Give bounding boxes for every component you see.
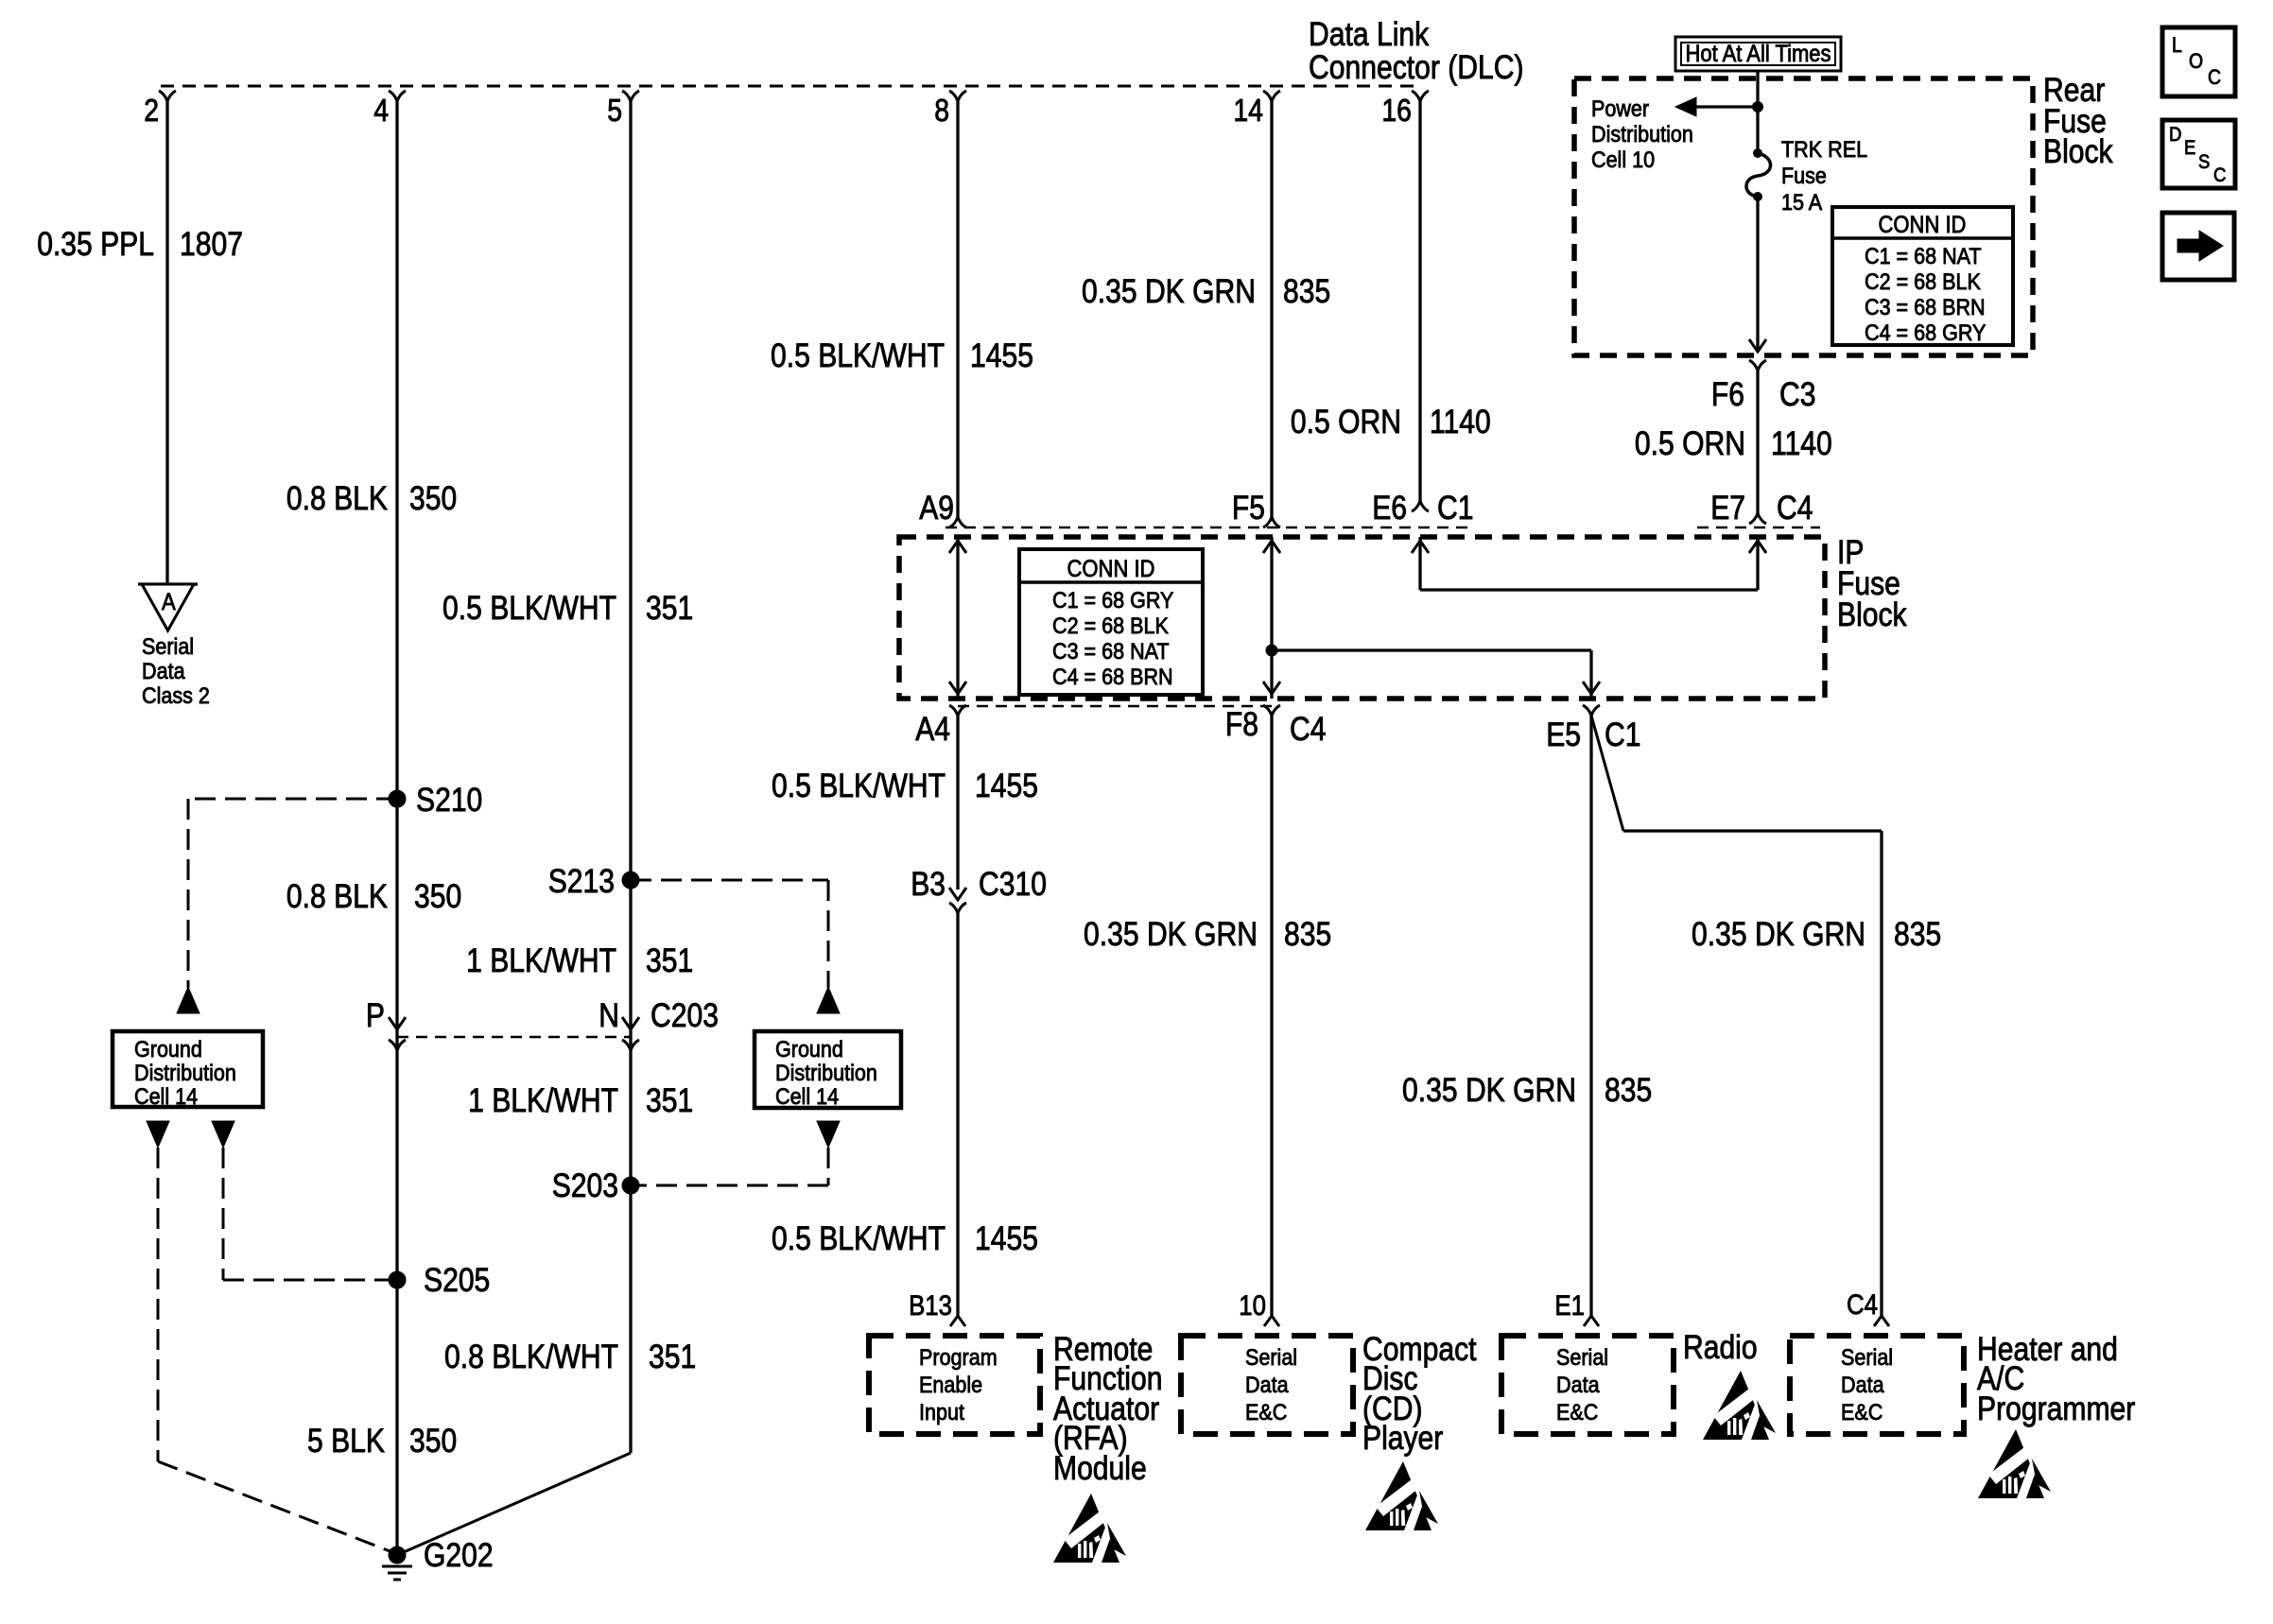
DLC pin 5 connector tick bbox=[622, 91, 639, 101]
svg-text:15 A: 15 A bbox=[1781, 190, 1823, 216]
arrow into right ground box bbox=[817, 987, 840, 1013]
svg-text:A4: A4 bbox=[915, 711, 950, 748]
svg-text:TRK REL: TRK REL bbox=[1781, 137, 1867, 163]
svg-text:Fuse: Fuse bbox=[1781, 164, 1827, 189]
label 0.35 DK GRN 835 heater bbox=[1692, 916, 1941, 953]
svg-text:Serial: Serial bbox=[1556, 1345, 1608, 1371]
svg-text:C3: C3 bbox=[1779, 376, 1816, 413]
svg-text:351: 351 bbox=[649, 1339, 696, 1375]
DLC top connector dashed line bbox=[161, 85, 1420, 88]
dashed wire left ground box to S205 bbox=[223, 1148, 390, 1280]
ESD symbol CD player bbox=[1365, 1461, 1438, 1530]
svg-text:C3 = 68 NAT: C3 = 68 NAT bbox=[1052, 639, 1170, 665]
wire pin5 down to bend bbox=[629, 101, 632, 1453]
svg-text:S: S bbox=[2198, 151, 2210, 173]
junction S205 bbox=[389, 1271, 406, 1288]
svg-text:Program: Program bbox=[919, 1345, 998, 1371]
tick into serial data E&C box heater bbox=[1874, 1316, 1889, 1326]
wire E5 down to E1 radio bbox=[1589, 716, 1592, 1316]
svg-text:C4 = 68 GRY: C4 = 68 GRY bbox=[1865, 320, 1986, 346]
label 0.5 BLK/WHT 1455 bbox=[771, 337, 1033, 374]
svg-text:E7: E7 bbox=[1710, 490, 1745, 527]
svg-text:0.5 ORN: 0.5 ORN bbox=[1635, 425, 1745, 462]
dashed wire S213 to right ground box bbox=[631, 880, 828, 988]
wire pin8 down to A9 bbox=[956, 101, 959, 517]
Compact Disc (CD) Player label bbox=[1362, 1331, 1477, 1457]
wire fuse to bottom of rear fuse block bbox=[1756, 197, 1759, 352]
svg-text:C4 = 68 BRN: C4 = 68 BRN bbox=[1052, 665, 1173, 690]
svg-text:1140: 1140 bbox=[1771, 425, 1832, 462]
svg-text:Connector (DLC): Connector (DLC) bbox=[1309, 49, 1524, 86]
IP fuse block dashed box bbox=[899, 537, 1825, 699]
svg-text:Serial: Serial bbox=[1841, 1345, 1893, 1371]
svg-text:4: 4 bbox=[373, 93, 389, 128]
DLC pin 2 connector tick bbox=[159, 91, 176, 101]
Rear Fuse Block label bbox=[2043, 72, 2113, 170]
label 0.35 PPL 1807 bbox=[37, 226, 243, 263]
svg-text:F8: F8 bbox=[1225, 706, 1258, 743]
label 1 BLK/WHT 351 bbox=[466, 942, 693, 979]
connector E7 C4 tick bbox=[1749, 513, 1766, 524]
label 0.35 DK GRN 835 radio bbox=[1402, 1072, 1652, 1109]
wire F8 down to pin 10 bbox=[1270, 716, 1273, 1316]
dashed wire right ground box to S203 bbox=[638, 1148, 828, 1185]
connector C203 pin P tick bbox=[389, 1040, 406, 1050]
svg-text:CONN ID: CONN ID bbox=[1879, 212, 1967, 238]
ESD symbol heater bbox=[1978, 1429, 2051, 1498]
connector F8 C4 tick bbox=[1263, 705, 1280, 716]
svg-text:C: C bbox=[2208, 65, 2221, 89]
svg-text:Programmer: Programmer bbox=[1977, 1391, 2136, 1427]
junction at power distribution tap bbox=[1753, 102, 1763, 112]
svg-text:Module: Module bbox=[1053, 1450, 1147, 1487]
label 0.5 ORN 1140 bbox=[1291, 404, 1491, 441]
svg-text:F6: F6 bbox=[1711, 376, 1744, 413]
IP Fuse Block label bbox=[1837, 534, 1907, 633]
wire F5-F8 through IP block bbox=[1270, 537, 1273, 699]
svg-text:351: 351 bbox=[646, 590, 693, 627]
connector B3 C310 bbox=[949, 888, 966, 900]
wire F6 to E7 0.5 ORN bbox=[1756, 371, 1759, 513]
svg-text:Power: Power bbox=[1591, 96, 1649, 122]
svg-text:A9: A9 bbox=[919, 490, 954, 527]
svg-text:0.5 BLK/WHT: 0.5 BLK/WHT bbox=[771, 337, 945, 374]
dashed wire S210 to ground distribution cell 14 bbox=[188, 799, 397, 988]
serial data class 2 triangle ref A bbox=[138, 584, 198, 631]
svg-text:1455: 1455 bbox=[975, 1220, 1038, 1257]
svg-text:351: 351 bbox=[646, 1082, 693, 1119]
tick into serial data E&C box CD bbox=[1264, 1316, 1279, 1326]
arrows below left ground box bbox=[147, 1121, 169, 1148]
svg-text:351: 351 bbox=[646, 942, 693, 979]
svg-text:Block: Block bbox=[2043, 133, 2113, 170]
program enable input box (RFA) bbox=[869, 1336, 1040, 1434]
svg-text:C310: C310 bbox=[979, 866, 1047, 903]
svg-text:2: 2 bbox=[144, 93, 159, 128]
svg-text:835: 835 bbox=[1283, 273, 1330, 310]
svg-text:Cell 10: Cell 10 bbox=[1591, 147, 1655, 173]
svg-text:Serial: Serial bbox=[142, 634, 194, 660]
connector A4 tick bbox=[949, 705, 966, 716]
svg-text:8: 8 bbox=[934, 93, 949, 128]
svg-text:S210: S210 bbox=[416, 782, 482, 819]
wire E5 branch to heater bbox=[1591, 716, 1882, 1316]
tick into program enable input box bbox=[950, 1316, 965, 1326]
svg-text:0.35 PPL: 0.35 PPL bbox=[37, 226, 154, 263]
label 0.8 BLK 350 second bbox=[286, 878, 461, 915]
C4 label heater bbox=[1847, 1289, 1878, 1321]
DLC pin 8 label bbox=[934, 93, 949, 128]
pin 10 label bbox=[1239, 1290, 1266, 1322]
svg-text:C: C bbox=[2213, 164, 2226, 186]
svg-text:Cell 14: Cell 14 bbox=[134, 1084, 198, 1110]
svg-text:Data: Data bbox=[142, 659, 185, 684]
svg-text:Cell 14: Cell 14 bbox=[775, 1084, 839, 1110]
label 0.5 ORN 1140 right bbox=[1635, 425, 1832, 462]
svg-text:E5: E5 bbox=[1546, 717, 1581, 753]
svg-text:0.8 BLK: 0.8 BLK bbox=[286, 878, 388, 915]
label 0.8 BLK/WHT 351 bbox=[444, 1339, 696, 1375]
connector C203 pin P arrow bbox=[389, 1017, 406, 1029]
svg-text:L: L bbox=[2172, 33, 2182, 57]
left ground distribution box bbox=[113, 1031, 263, 1110]
svg-text:G202: G202 bbox=[424, 1537, 494, 1574]
svg-text:A: A bbox=[162, 589, 176, 615]
right ground distribution box bbox=[755, 1031, 901, 1110]
svg-text:0.5 BLK/WHT: 0.5 BLK/WHT bbox=[772, 768, 946, 804]
connector F6 C3 tick bbox=[1749, 360, 1766, 371]
Hot At All Times box bbox=[1675, 37, 1841, 71]
svg-text:E&C: E&C bbox=[1556, 1400, 1598, 1425]
svg-text:0.5 BLK/WHT: 0.5 BLK/WHT bbox=[442, 590, 616, 627]
svg-text:P: P bbox=[366, 997, 385, 1034]
svg-text:C1: C1 bbox=[1605, 717, 1641, 753]
connector E6 C1 tick bbox=[1412, 501, 1429, 511]
svg-text:E: E bbox=[2184, 137, 2195, 159]
wire junction to E5 bbox=[1272, 648, 1591, 651]
DLC pin 5 label bbox=[607, 93, 622, 128]
svg-text:F5: F5 bbox=[1232, 490, 1265, 527]
svg-text:Ground: Ground bbox=[134, 1037, 202, 1063]
DLC pin 2 label bbox=[144, 93, 159, 128]
ESD symbol radio bbox=[1703, 1371, 1776, 1440]
arrow below right ground box bbox=[817, 1121, 840, 1148]
TRK REL Fuse 15 A text bbox=[1781, 137, 1867, 216]
svg-text:C4: C4 bbox=[1290, 711, 1327, 748]
svg-text:Hot At All Times: Hot At All Times bbox=[1685, 41, 1831, 67]
svg-text:Data Link: Data Link bbox=[1309, 16, 1430, 53]
fuse TRK REL 15A bbox=[1746, 149, 1771, 201]
svg-text:835: 835 bbox=[1605, 1072, 1652, 1109]
rear fuse block dashed box bbox=[1574, 78, 2033, 355]
wire pin4 to G202 bbox=[395, 101, 398, 1555]
serial data E&C box radio bbox=[1501, 1336, 1674, 1434]
svg-text:Enable: Enable bbox=[919, 1373, 982, 1398]
DLC pin 16 label bbox=[1381, 93, 1412, 128]
svg-text:0.35 DK GRN: 0.35 DK GRN bbox=[1084, 916, 1258, 953]
svg-text:5: 5 bbox=[607, 93, 622, 128]
svg-text:B13: B13 bbox=[909, 1290, 952, 1322]
svg-text:C4: C4 bbox=[1777, 490, 1813, 527]
label 0.35 DK GRN 835 bbox=[1082, 273, 1330, 310]
connector C203 pin N tick bbox=[622, 1040, 639, 1050]
CONN ID table IP fuse block bbox=[1019, 549, 1203, 695]
LOC legend box bbox=[2162, 27, 2235, 96]
svg-text:0.35 DK GRN: 0.35 DK GRN bbox=[1692, 916, 1865, 953]
DLC pin 14 label bbox=[1233, 93, 1263, 128]
svg-text:Data: Data bbox=[1556, 1373, 1600, 1398]
svg-text:E1: E1 bbox=[1554, 1290, 1585, 1322]
tick into serial data E&C box radio bbox=[1584, 1316, 1599, 1326]
connector E5 C1 tick bbox=[1583, 705, 1600, 716]
svg-text:Radio: Radio bbox=[1683, 1329, 1758, 1366]
serial data E&C box heater bbox=[1790, 1336, 1964, 1434]
svg-text:Distribution: Distribution bbox=[134, 1061, 236, 1086]
svg-text:Ground: Ground bbox=[775, 1037, 843, 1063]
svg-text:O: O bbox=[2189, 49, 2203, 73]
svg-text:Data: Data bbox=[1245, 1373, 1289, 1398]
label 5 BLK 350 bbox=[307, 1423, 457, 1460]
svg-text:D: D bbox=[2169, 124, 2181, 146]
DLC pin 14 connector tick bbox=[1263, 91, 1280, 101]
Data Link Connector (DLC) title bbox=[1309, 16, 1524, 86]
dashed wire left ground box to G202 bbox=[158, 1148, 392, 1552]
ESD symbol RFA bbox=[1053, 1494, 1126, 1563]
Remote Function Actuator (RFA) Module label bbox=[1053, 1331, 1163, 1487]
Power Distribution Cell 10 text bbox=[1591, 96, 1693, 173]
B13 label bbox=[909, 1290, 952, 1322]
svg-text:S213: S213 bbox=[548, 863, 615, 900]
svg-text:Input: Input bbox=[919, 1400, 964, 1425]
wire pin2 0.35 PPL 1807 bbox=[165, 101, 168, 584]
DLC pin 4 connector tick bbox=[389, 91, 406, 101]
arrow into left ground box bbox=[177, 987, 200, 1013]
svg-text:E&C: E&C bbox=[1245, 1400, 1287, 1425]
svg-text:0.5 BLK/WHT: 0.5 BLK/WHT bbox=[772, 1220, 946, 1257]
DLC pin 16 connector tick bbox=[1412, 91, 1429, 101]
wire pin16 down to E6 C1 bbox=[1418, 101, 1421, 501]
label 0.5 BLK/WHT 1455 third bbox=[772, 1220, 1038, 1257]
svg-text:Data: Data bbox=[1841, 1373, 1884, 1398]
svg-text:1455: 1455 bbox=[975, 768, 1038, 804]
arrow legend box bbox=[2162, 213, 2234, 280]
svg-text:0.35 DK GRN: 0.35 DK GRN bbox=[1402, 1072, 1576, 1109]
svg-text:C2 = 68 BLK: C2 = 68 BLK bbox=[1052, 613, 1169, 639]
svg-text:C1 = 68 GRY: C1 = 68 GRY bbox=[1052, 588, 1173, 613]
svg-text:S205: S205 bbox=[424, 1262, 490, 1299]
svg-text:0.8 BLK/WHT: 0.8 BLK/WHT bbox=[444, 1339, 618, 1375]
svg-text:Class 2: Class 2 bbox=[142, 683, 210, 709]
svg-text:14: 14 bbox=[1233, 93, 1263, 128]
svg-text:16: 16 bbox=[1381, 93, 1412, 128]
svg-text:1455: 1455 bbox=[970, 337, 1033, 374]
svg-text:S203: S203 bbox=[552, 1167, 618, 1204]
svg-text:1 BLK/WHT: 1 BLK/WHT bbox=[468, 1082, 618, 1119]
svg-text:835: 835 bbox=[1284, 916, 1331, 953]
label 1 BLK/WHT 351 second bbox=[468, 1082, 693, 1119]
svg-text:E6: E6 bbox=[1372, 490, 1407, 527]
junction S213 bbox=[622, 872, 639, 889]
svg-text:0.8 BLK: 0.8 BLK bbox=[286, 480, 388, 517]
junction S203 bbox=[622, 1177, 639, 1194]
Radio label bbox=[1683, 1329, 1758, 1366]
wire A9-A4 through IP block bbox=[956, 537, 959, 699]
wire pin5 diagonal to G202 bbox=[397, 1453, 631, 1555]
connector F5 tick bbox=[1263, 517, 1280, 527]
svg-text:B3: B3 bbox=[911, 866, 946, 903]
svg-text:1140: 1140 bbox=[1430, 404, 1491, 441]
DESC legend box bbox=[2162, 120, 2235, 188]
svg-text:Serial: Serial bbox=[1245, 1345, 1297, 1371]
svg-text:C1 = 68 NAT: C1 = 68 NAT bbox=[1865, 244, 1982, 269]
svg-text:Distribution: Distribution bbox=[775, 1061, 877, 1086]
svg-text:C3 = 68 BRN: C3 = 68 BRN bbox=[1865, 295, 1986, 320]
C203 dashed connector line bbox=[397, 1036, 631, 1039]
svg-text:1 BLK/WHT: 1 BLK/WHT bbox=[466, 942, 616, 979]
DLC pin 4 label bbox=[373, 93, 389, 128]
connector A9 tick bbox=[949, 517, 966, 527]
label 0.8 BLK 350 bbox=[286, 480, 457, 517]
svg-text:N: N bbox=[599, 997, 619, 1034]
label 0.5 BLK/WHT 351 bbox=[442, 590, 693, 627]
wire pin14 down to F5 bbox=[1270, 101, 1273, 517]
svg-text:835: 835 bbox=[1894, 916, 1941, 953]
labels P N C203 bbox=[366, 997, 385, 1034]
label 0.5 BLK/WHT 1455 second bbox=[772, 768, 1038, 804]
svg-text:1807: 1807 bbox=[180, 226, 243, 263]
serial data E&C box CD player bbox=[1181, 1336, 1353, 1434]
wire A4 to B3 bbox=[956, 716, 959, 890]
svg-text:C2 = 68 BLK: C2 = 68 BLK bbox=[1865, 269, 1981, 295]
svg-text:E&C: E&C bbox=[1841, 1400, 1883, 1425]
arrow to power distribution bbox=[1675, 97, 1758, 116]
svg-text:C203: C203 bbox=[651, 997, 719, 1034]
DLC lower connector dashed line bbox=[946, 527, 1470, 529]
svg-text:C1: C1 bbox=[1437, 490, 1474, 527]
IP fuse block lower connector dashed line bbox=[958, 705, 1272, 708]
DLC pin 8 connector tick bbox=[949, 91, 966, 101]
svg-text:5 BLK: 5 BLK bbox=[307, 1423, 385, 1460]
svg-text:Block: Block bbox=[1837, 596, 1907, 633]
svg-text:C4: C4 bbox=[1847, 1289, 1878, 1321]
svg-text:CONN ID: CONN ID bbox=[1067, 556, 1155, 582]
svg-text:10: 10 bbox=[1239, 1290, 1266, 1322]
svg-text:350: 350 bbox=[409, 480, 457, 517]
junction S210 bbox=[389, 790, 406, 807]
wire C310 to B13 bbox=[956, 913, 959, 1316]
wire from hot box to fuse bbox=[1756, 71, 1759, 153]
svg-text:0.35 DK GRN: 0.35 DK GRN bbox=[1082, 273, 1256, 310]
svg-text:350: 350 bbox=[409, 1423, 457, 1460]
serial data class 2 text bbox=[142, 634, 210, 709]
Heater and A/C Programmer label bbox=[1977, 1331, 2136, 1427]
connector C203 pin N arrow bbox=[622, 1017, 639, 1029]
svg-text:Player: Player bbox=[1362, 1420, 1444, 1457]
E1 label bbox=[1554, 1290, 1585, 1322]
label 0.35 DK GRN 835 middle bbox=[1084, 916, 1331, 953]
ground G202 bbox=[382, 1546, 412, 1580]
junction in IP block on F5 wire bbox=[1266, 645, 1277, 656]
svg-text:0.5 ORN: 0.5 ORN bbox=[1291, 404, 1401, 441]
CONN ID table rear fuse block bbox=[1832, 207, 2013, 346]
svg-text:350: 350 bbox=[414, 878, 461, 915]
svg-text:Distribution: Distribution bbox=[1591, 122, 1693, 147]
wire E6 to E7 inside IP block bbox=[1418, 537, 1421, 590]
